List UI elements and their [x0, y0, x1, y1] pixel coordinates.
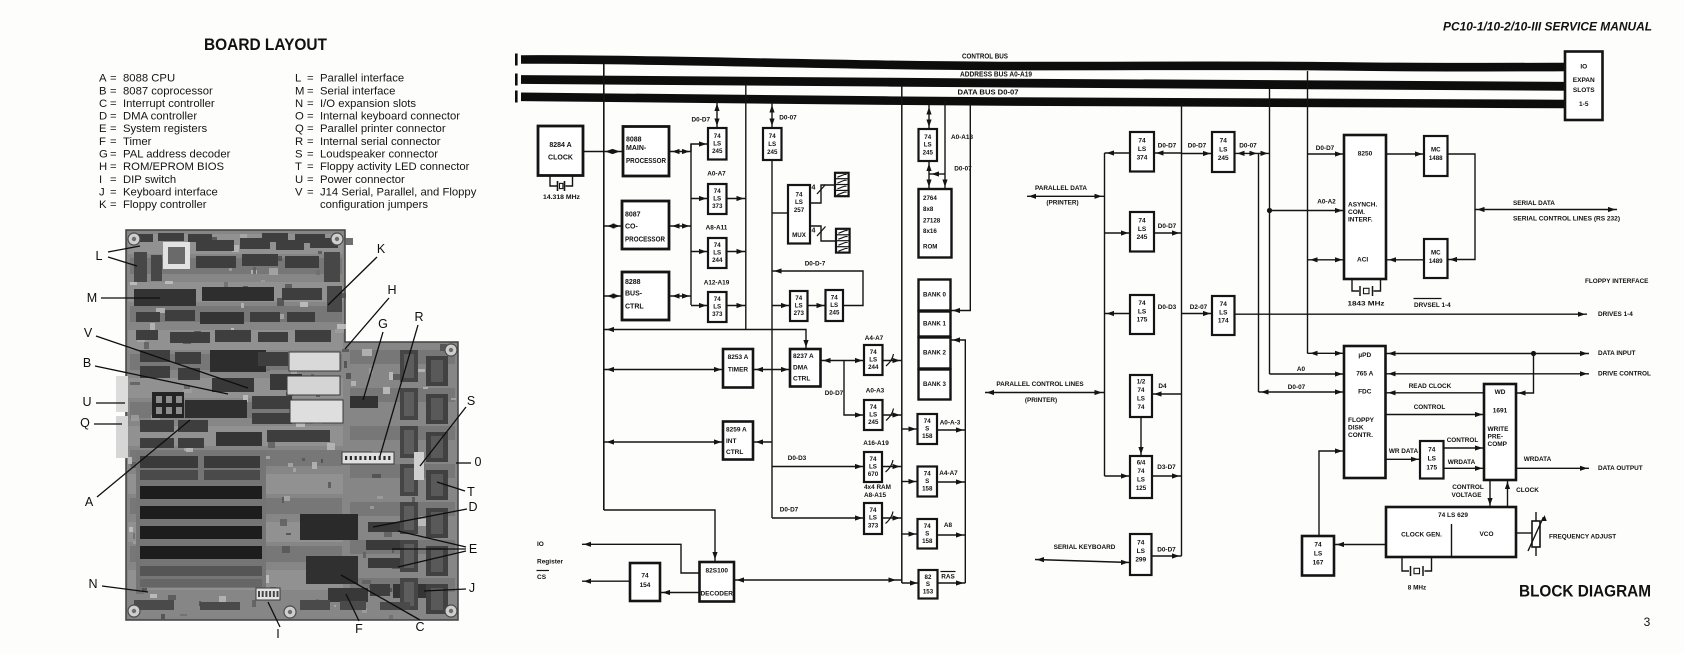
ram BANK 2 — [919, 338, 951, 369]
svg-text:SERIAL DATA: SERIAL DATA — [1513, 200, 1555, 207]
svg-text:LS: LS — [1138, 226, 1147, 233]
wire rom 74LS245 to ROM with arrows — [926, 161, 931, 189]
svg-text:8284 A: 8284 A — [549, 142, 571, 149]
svg-text:74: 74 — [1314, 542, 1322, 549]
svg-text:C: C — [415, 620, 424, 634]
svg-text:74: 74 — [795, 295, 802, 302]
svg-text:DRVSEL 1-4: DRVSEL 1-4 — [1414, 302, 1451, 309]
decoder 82S100 DECODER — [700, 562, 735, 602]
wire 74S158 col out — [937, 479, 965, 484]
svg-text:D0-07: D0-07 — [1239, 143, 1257, 150]
wire buffer column to 74LS245 elbow — [691, 141, 708, 151]
register file 74LS670 4x4 RAM — [864, 452, 882, 482]
svg-text:=: = — [307, 111, 314, 123]
register 74LS273 — [790, 291, 808, 321]
svg-text:74: 74 — [831, 295, 838, 302]
svg-text:V: V — [84, 326, 93, 340]
wire vertical buffer-feed x691 — [690, 144, 692, 305]
svg-text:H: H — [387, 283, 396, 297]
bus CONTROL BUS — [515, 54, 1565, 68]
wire 74LS175 control to WD1691 — [1444, 445, 1485, 450]
svg-text:74: 74 — [924, 471, 931, 478]
svg-text:COMP: COMP — [1488, 441, 1508, 448]
svg-text:DRIVES 1-4: DRIVES 1-4 — [1598, 311, 1633, 318]
svg-text:Parallel interface: Parallel interface — [320, 73, 404, 85]
svg-text:CTRL: CTRL — [793, 376, 810, 383]
svg-text:S: S — [925, 426, 929, 433]
svg-text:Keyboard interface: Keyboard interface — [123, 186, 218, 198]
svg-text:=: = — [110, 85, 117, 97]
svg-text:LS: LS — [713, 196, 721, 203]
wire 82S100 to address vertical long — [734, 577, 902, 582]
svg-text:READ CLOCK: READ CLOCK — [1409, 383, 1452, 390]
svg-text:DIP switch: DIP switch — [123, 174, 176, 186]
svg-text:DATA BUS D0-07: DATA BUS D0-07 — [958, 90, 1019, 97]
wire READ CLOCK WD1691 to FDC — [1386, 390, 1485, 395]
latch 74LS373 mid address — [864, 503, 882, 534]
svg-text:245: 245 — [923, 150, 934, 157]
svg-text:=: = — [307, 73, 314, 85]
photo label U — [82, 395, 125, 409]
svg-text:8250: 8250 — [1358, 151, 1373, 158]
svg-text:A4-A7: A4-A7 — [865, 335, 884, 342]
wire 8088 to buffer column with arrows — [669, 149, 691, 154]
svg-text:1489: 1489 — [1429, 258, 1443, 265]
svg-text:F: F — [99, 136, 106, 148]
svg-text:D0-07: D0-07 — [954, 166, 972, 173]
svg-text:8x16: 8x16 — [923, 228, 937, 235]
svg-text:8088 CPU: 8088 CPU — [123, 73, 175, 85]
svg-text:245: 245 — [868, 419, 879, 426]
svg-text:L: L — [96, 249, 103, 263]
svg-text:74: 74 — [1220, 301, 1228, 308]
svg-text:1-5: 1-5 — [1579, 101, 1589, 108]
svg-text:DRIVE CONTROL: DRIVE CONTROL — [1598, 371, 1651, 378]
svg-text:RAS: RAS — [941, 574, 955, 581]
svg-text:CONTROL: CONTROL — [1414, 404, 1446, 411]
wire 374 to printer vertical — [1105, 150, 1131, 155]
svg-text:=: = — [307, 174, 314, 186]
svg-text:T: T — [295, 161, 302, 173]
svg-text:LS: LS — [713, 141, 721, 148]
svg-text:Parallel printer connector: Parallel printer connector — [320, 123, 446, 135]
svg-text:8288: 8288 — [625, 279, 641, 286]
svg-text:DATA OUTPUT: DATA OUTPUT — [1598, 465, 1643, 472]
svg-text:8087: 8087 — [625, 212, 641, 219]
buffer 74LS244 dma address — [864, 345, 883, 375]
svg-text:Register: Register — [537, 559, 563, 566]
wire vertical to ADDRESS BUS x746 — [745, 84, 747, 330]
svg-text:R: R — [295, 136, 303, 148]
svg-text:V: V — [295, 186, 303, 198]
svg-text:BANK 1: BANK 1 — [923, 321, 947, 328]
register 74LS174 drive select — [1212, 296, 1235, 335]
latch 74LS373 A0-A7 — [708, 184, 727, 214]
svg-text:373: 373 — [712, 203, 723, 210]
potentiometer FREQUENCY ADJUST — [1516, 512, 1616, 556]
svg-text:O: O — [295, 111, 304, 123]
svg-text:DMA controller: DMA controller — [123, 111, 197, 123]
svg-text:A0-A7: A0-A7 — [707, 171, 726, 178]
wire clock into FDC from divider — [1319, 448, 1344, 536]
wire PARALLEL CONTROL LINES port — [985, 381, 1105, 404]
buffer 74LS245 dram data — [763, 128, 782, 160]
svg-text:765 A: 765 A — [1356, 371, 1373, 378]
svg-text:D4: D4 — [1158, 383, 1167, 390]
wire printer vertical into 74LS125 — [1105, 473, 1131, 478]
wire printer vertical to 245 printer — [1105, 230, 1131, 235]
svg-text:LS: LS — [830, 302, 838, 309]
svg-text:74: 74 — [1138, 387, 1145, 394]
svg-text:E: E — [469, 542, 477, 556]
buffer 74LS245 bus link — [1212, 132, 1235, 172]
wire DRIVE CONTROL line — [1386, 371, 1651, 378]
svg-text:4x4 RAM: 4x4 RAM — [864, 484, 891, 491]
wire 8237 to 74LS244 with arrows — [821, 358, 865, 363]
svg-text:=: = — [110, 136, 117, 148]
svg-text:245: 245 — [1218, 155, 1229, 162]
svg-text:=: = — [307, 136, 314, 148]
svg-text:=: = — [307, 161, 314, 173]
wire 74LS125 to data vertical — [1152, 473, 1182, 478]
svg-text:373: 373 — [712, 311, 723, 318]
svg-text:IO: IO — [537, 541, 544, 548]
wire data vertical to 374 — [1154, 150, 1182, 155]
svg-text:A16-A19: A16-A19 — [863, 440, 889, 447]
label RAS with overline — [941, 572, 956, 581]
svg-text:SLOTS: SLOTS — [1573, 87, 1595, 94]
svg-text:DMA: DMA — [793, 365, 808, 372]
wire refresh loop from 74LS245 up to dram vertical — [772, 268, 863, 305]
svg-text:LS: LS — [1219, 310, 1228, 317]
svg-text:D0-D7: D0-D7 — [1158, 143, 1177, 150]
svg-text:245: 245 — [767, 149, 778, 156]
svg-text:S: S — [295, 149, 303, 161]
svg-text:S: S — [467, 394, 475, 408]
wire mux to resistor pack lower, width 4 — [810, 226, 836, 241]
svg-text:74: 74 — [714, 133, 721, 140]
processor 8088 MAIN-PROCESSOR — [623, 127, 669, 177]
crystal 14.318 MHz — [543, 176, 581, 201]
svg-text:IO: IO — [1580, 64, 1587, 71]
svg-text:244: 244 — [712, 257, 723, 264]
svg-text:(PRINTER): (PRINTER) — [1046, 200, 1078, 207]
svg-text:=: = — [110, 123, 117, 135]
wire 8253 to 8237 with arrows — [753, 367, 790, 372]
svg-text:PARALLEL DATA: PARALLEL DATA — [1035, 185, 1087, 192]
photo label T — [437, 482, 475, 499]
label IO Register CS — [537, 541, 564, 581]
svg-text:N: N — [88, 577, 97, 591]
wire 74154 output left — [582, 579, 630, 584]
resistor pack lower — [836, 229, 850, 253]
svg-text:1843 MHz: 1843 MHz — [1348, 301, 1385, 308]
svg-text:CONTROL: CONTROL — [1452, 484, 1484, 491]
floppy controller uPD765A FDC — [1344, 346, 1386, 478]
bus DATA BUS D0-D7 — [515, 90, 1565, 104]
svg-text:LS: LS — [1219, 147, 1228, 154]
svg-text:Q: Q — [295, 123, 304, 135]
svg-text:A0-A2: A0-A2 — [1317, 199, 1336, 206]
wire vertical address x1270 from ADDRESS BUS — [1269, 89, 1271, 374]
svg-text:245: 245 — [829, 310, 840, 317]
wire D0-D7 into 74LS373 mid — [772, 507, 864, 521]
ram BANK 1 — [919, 312, 951, 337]
svg-text:74: 74 — [769, 133, 776, 140]
svg-text:CTRL: CTRL — [726, 449, 743, 456]
svg-text:175: 175 — [1426, 465, 1437, 472]
svg-text:167: 167 — [1313, 560, 1324, 567]
legend column 2 — [295, 73, 477, 212]
photo label 0 — [456, 455, 482, 469]
svg-text:S: S — [926, 581, 930, 588]
wire serial loop MC1488 MC1489 — [1448, 154, 1476, 262]
wire DRIVES 1-4 select line — [1235, 311, 1634, 318]
svg-text:8x8: 8x8 — [923, 206, 934, 213]
svg-text:74: 74 — [714, 296, 721, 303]
svg-text:245: 245 — [712, 148, 723, 155]
svg-text:158: 158 — [922, 486, 933, 493]
wire into 74LS244 — [691, 249, 708, 254]
wire mux column to BANK 2 right side — [951, 337, 966, 583]
wire 74LS245 low out with width slash — [883, 409, 902, 421]
buffer 74LS245 refresh — [826, 290, 844, 321]
svg-text:0: 0 — [475, 455, 482, 469]
svg-text:A12-A19: A12-A19 — [704, 280, 730, 287]
svg-text:D0-D3: D0-D3 — [788, 455, 807, 462]
svg-text:LS: LS — [869, 464, 877, 471]
svg-text:MAIN-: MAIN- — [626, 145, 647, 152]
ram BANK 0 — [919, 280, 951, 311]
svg-text:=: = — [110, 98, 117, 110]
wire 8087 right with arrows — [669, 223, 691, 228]
svg-text:E: E — [99, 123, 107, 135]
svg-text:N: N — [295, 98, 303, 110]
wire control vertical to 8253 — [604, 367, 723, 372]
svg-text:PAL address decoder: PAL address decoder — [123, 149, 231, 161]
label DRVSEL 1-4 with overline — [1414, 299, 1452, 310]
buffer 74LS244 A8-A11 — [708, 238, 727, 268]
svg-text:B: B — [83, 356, 91, 370]
svg-text:J: J — [469, 581, 475, 595]
wire into 74S158 row — [902, 426, 918, 431]
buffer 74LS245 rom data — [919, 129, 938, 161]
svg-text:D0-D7: D0-D7 — [692, 117, 711, 124]
svg-text:74: 74 — [870, 404, 877, 411]
svg-text:Interrupt controller: Interrupt controller — [123, 98, 215, 110]
svg-text:74: 74 — [1138, 138, 1146, 145]
svg-text:BLOCK DIAGRAM: BLOCK DIAGRAM — [1519, 582, 1651, 601]
wire 8288 right with arrows — [669, 293, 691, 298]
svg-text:8259 A: 8259 A — [726, 427, 747, 434]
svg-text:T: T — [467, 485, 475, 499]
photo label I — [268, 602, 280, 641]
photo label G — [363, 317, 388, 400]
board photo — [116, 230, 458, 620]
svg-text:FLOPPY: FLOPPY — [1348, 417, 1375, 424]
shift register 74LS299 keyboard — [1130, 534, 1152, 575]
photo label D — [373, 500, 478, 527]
svg-text:LS: LS — [1138, 309, 1147, 316]
svg-text:=: = — [110, 186, 117, 198]
svg-text:74: 74 — [870, 349, 877, 356]
wire 8288 left with arrows — [604, 293, 622, 298]
svg-text:LS: LS — [768, 141, 776, 148]
svg-text:M: M — [295, 85, 304, 97]
svg-text:D: D — [99, 111, 107, 123]
wire 74LS373 A0-A7 output to address vertical — [727, 196, 746, 201]
svg-text:J14 Serial, Parallel, and Flop: J14 Serial, Parallel, and Floppy — [320, 186, 477, 198]
wire into mux — [772, 212, 788, 214]
demultiplexer 74154 — [630, 563, 660, 601]
wire 245 bus link to floppy verticals — [1235, 151, 1270, 156]
svg-text:74: 74 — [714, 188, 721, 195]
svg-text:1/2: 1/2 — [1137, 379, 1146, 386]
svg-text:=: = — [307, 149, 314, 161]
svg-text:154: 154 — [640, 582, 651, 589]
svg-text:=: = — [110, 149, 117, 161]
wire 8087 left with arrows — [604, 223, 622, 228]
wire IO register select with arrow — [582, 542, 700, 573]
svg-text:244: 244 — [868, 364, 879, 371]
svg-text:74: 74 — [796, 192, 803, 199]
buffer 74LS245 cpu data — [708, 128, 727, 160]
svg-text:174: 174 — [1218, 318, 1229, 325]
svg-text:74: 74 — [870, 507, 877, 514]
svg-text:LS: LS — [869, 357, 877, 364]
coprocessor 8087 CO-PROCESSOR — [622, 201, 669, 249]
svg-text:74: 74 — [641, 573, 649, 580]
wire into 74LS373 A12-A19 — [691, 303, 708, 308]
wire 74LS244 output to address vertical — [727, 249, 746, 254]
svg-text:LS: LS — [713, 304, 721, 311]
wire 74LS373 mid out with width slash — [882, 512, 902, 524]
svg-text:DATA INPUT: DATA INPUT — [1598, 350, 1636, 357]
photo label C — [341, 575, 425, 634]
svg-text:ACI: ACI — [1357, 257, 1368, 264]
svg-text:A4-A7: A4-A7 — [939, 470, 958, 477]
svg-text:D0-D7: D0-D7 — [1158, 223, 1177, 230]
svg-text:J: J — [99, 186, 105, 198]
svg-text:FREQUENCY ADJUST: FREQUENCY ADJUST — [1549, 534, 1616, 541]
svg-text:CTRL: CTRL — [625, 304, 644, 311]
svg-text:27128: 27128 — [923, 218, 941, 225]
photo label K — [328, 242, 386, 305]
wire 74LS373 A12-A19 output to address vertical — [727, 303, 746, 308]
svg-text:INTERF.: INTERF. — [1348, 217, 1373, 224]
svg-text:LS: LS — [795, 303, 803, 310]
svg-text:74: 74 — [1138, 300, 1146, 307]
svg-text:CLOCK GEN.: CLOCK GEN. — [1401, 532, 1442, 539]
svg-text:8087 coprocessor: 8087 coprocessor — [123, 85, 213, 97]
timer 8253 A TIMER — [723, 349, 753, 388]
svg-text:125: 125 — [1136, 485, 1147, 492]
svg-text:FLOPPY INTERFACE: FLOPPY INTERFACE — [1585, 278, 1649, 285]
svg-text:=: = — [110, 111, 117, 123]
svg-text:LS: LS — [1428, 456, 1437, 463]
photo label F — [346, 594, 363, 636]
label CONTROL VOLTAGE — [1452, 484, 1484, 499]
svg-text:BOARD LAYOUT: BOARD LAYOUT — [204, 36, 327, 54]
wire 74LS74 down to 74LS125 — [1138, 417, 1143, 456]
svg-text:SERIAL KEYBOARD: SERIAL KEYBOARD — [1054, 544, 1116, 551]
wire into 74LS373 A0-A7 — [691, 196, 708, 201]
svg-text:2764: 2764 — [923, 195, 937, 202]
wire 74S158 row out — [937, 427, 965, 432]
ram BANK 3 — [919, 370, 951, 400]
svg-text:PRE-: PRE- — [1488, 434, 1504, 441]
svg-text:PROCESSOR: PROCESSOR — [625, 237, 665, 244]
photo label M — [87, 291, 160, 305]
wire 8284 to 8088 with arrows — [583, 149, 623, 154]
svg-text:74: 74 — [714, 242, 721, 249]
svg-text:C: C — [99, 98, 107, 110]
svg-text:LS: LS — [713, 250, 721, 257]
svg-text:PC10-1/10-2/10-III SERVICE MAN: PC10-1/10-2/10-III SERVICE MANUAL — [1443, 22, 1652, 34]
svg-text:S: S — [925, 531, 929, 538]
wire ACI handshake bottom with arrows — [1308, 257, 1345, 262]
svg-text:(PRINTER): (PRINTER) — [1025, 397, 1057, 404]
svg-text:74: 74 — [924, 134, 931, 141]
svg-text:INT: INT — [726, 438, 737, 445]
svg-text:D0-07: D0-07 — [779, 115, 797, 122]
svg-text:74: 74 — [924, 523, 931, 530]
svg-text:74 LS 629: 74 LS 629 — [1438, 512, 1468, 519]
wire data bus to BANK 1 right side — [951, 104, 971, 314]
svg-text:DISK: DISK — [1348, 425, 1364, 432]
svg-text:4: 4 — [812, 185, 816, 192]
flipflop 1/2 74LS74 — [1130, 375, 1152, 417]
svg-text:FDC: FDC — [1358, 389, 1372, 396]
wire 74LS273 to 74LS245 — [808, 303, 826, 308]
svg-text:WRITE: WRITE — [1488, 426, 1510, 433]
wire D0-07 into FDC with arrows — [1259, 389, 1345, 394]
svg-text:I: I — [99, 174, 102, 186]
svg-text:System registers: System registers — [123, 123, 207, 135]
svg-text:D0-D7: D0-D7 — [1316, 145, 1335, 152]
dma controller 8237 A DMA CTRL — [790, 349, 821, 387]
svg-text:COM.: COM. — [1348, 209, 1365, 216]
wire CONTROL FDC to WD1691 — [1386, 412, 1485, 417]
buffer 6/4 74LS125 — [1130, 456, 1152, 498]
wire vertical floppy data x1258 — [1258, 153, 1260, 392]
svg-text:374: 374 — [1137, 155, 1148, 162]
wire MC1489 to ACI — [1386, 257, 1424, 262]
pal 82S153 ras decoder — [919, 570, 938, 599]
wire data vertical to 74LS74 — [1152, 391, 1182, 396]
wire long horizontal to DMA top — [604, 327, 809, 349]
wire control vertical to ACI — [1308, 151, 1345, 156]
wire 8259 to dram data vertical — [753, 439, 772, 444]
svg-text:PARALLEL CONTROL LINES: PARALLEL CONTROL LINES — [996, 381, 1084, 388]
svg-text:A: A — [85, 495, 94, 509]
legend column 1 — [99, 73, 231, 212]
svg-text:A0: A0 — [1297, 366, 1306, 373]
svg-text:L: L — [295, 73, 301, 85]
wire WR DATA FDC to 74LS175 — [1386, 457, 1421, 462]
svg-text:K: K — [99, 199, 107, 211]
wire vertical control x1307 from CONTROL BUS — [1307, 71, 1309, 354]
svg-text:D0-D7: D0-D7 — [780, 507, 799, 514]
svg-text:CS: CS — [537, 574, 547, 581]
svg-text:ROM: ROM — [923, 244, 937, 251]
svg-text:F: F — [355, 622, 363, 636]
svg-text:CONTROL: CONTROL — [1447, 437, 1479, 444]
interrupt controller 8259 A INT CTRL — [723, 422, 753, 460]
svg-text:U: U — [82, 395, 91, 409]
svg-text:1488: 1488 — [1429, 155, 1443, 162]
svg-text:configuration jumpers: configuration jumpers — [320, 199, 428, 211]
